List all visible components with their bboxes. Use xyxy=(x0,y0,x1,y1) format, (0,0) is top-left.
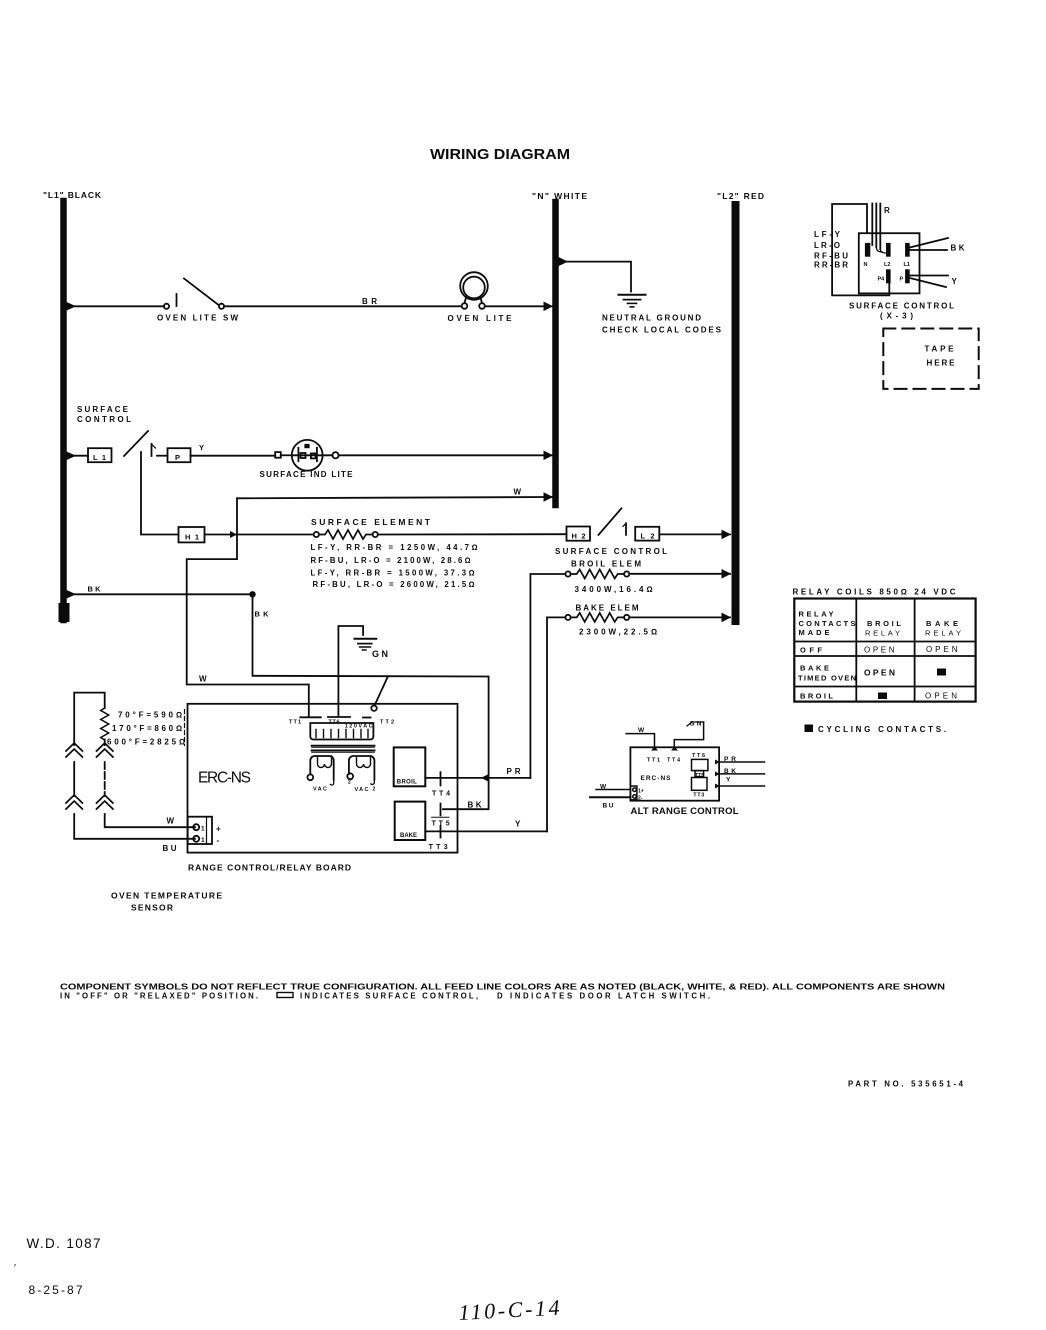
terminal TT3 tick xyxy=(440,826,442,838)
svg-text:Y: Y xyxy=(515,819,521,828)
pin 2 X-3 xyxy=(886,243,891,257)
junction dot BK xyxy=(249,591,255,597)
wire N bus to neutral ground xyxy=(558,262,631,292)
svg-text:Y: Y xyxy=(952,277,958,286)
svg-text:P4: P4 xyxy=(878,277,886,283)
box TAPE HERE xyxy=(883,329,978,389)
connector terminal block on board xyxy=(188,817,212,844)
transformer core xyxy=(312,746,375,751)
svg-text:WIRING DIAGRAM: WIRING DIAGRAM xyxy=(430,146,570,163)
svg-text:110-C-14: 110-C-14 xyxy=(458,1295,560,1325)
svg-text:P: P xyxy=(175,453,180,462)
wire P to ind lite xyxy=(191,455,276,457)
svg-text:N: N xyxy=(864,262,868,268)
terminal TT5 tick xyxy=(440,804,442,816)
svg-text:TT4: TT4 xyxy=(432,790,450,797)
svg-text:2300W,22.5Ω: 2300W,22.5Ω xyxy=(579,628,657,637)
resistor sensor xyxy=(101,708,109,740)
svg-text:TT1: TT1 xyxy=(289,720,301,726)
svg-text:RR-BR: RR-BR xyxy=(814,261,848,270)
transformer secondary right xyxy=(349,756,375,780)
svg-text:R: R xyxy=(884,206,890,215)
svg-text:BROIL: BROIL xyxy=(397,780,417,786)
svg-text:"L1" BLACK: "L1" BLACK xyxy=(43,190,102,200)
svg-text:2-: 2- xyxy=(638,795,643,801)
terminal TT6 bar xyxy=(328,716,350,718)
relay BROIL xyxy=(394,747,426,786)
svg-text:RF-BU: RF-BU xyxy=(814,252,848,261)
svg-text:BROIL: BROIL xyxy=(867,619,901,628)
wire loop left of X-3 xyxy=(832,204,889,295)
pin 5 X-3 xyxy=(905,269,910,283)
svg-text:RANGE CONTROL/RELAY BOARD: RANGE CONTROL/RELAY BOARD xyxy=(188,863,351,873)
svg-text:70°F=590Ω: 70°F=590Ω xyxy=(118,711,182,720)
switch blade H2 xyxy=(599,508,622,534)
node L2 bus xyxy=(732,205,740,621)
svg-text:RF-BU, LR-O = 2600W, 21.5Ω: RF-BU, LR-O = 2600W, 21.5Ω xyxy=(313,580,475,589)
switch blade surface control xyxy=(124,431,148,456)
box L1 (surface control contact) xyxy=(88,448,112,462)
svg-text:TT3: TT3 xyxy=(693,792,704,798)
wire switch to oven lite xyxy=(224,305,461,307)
box H2 xyxy=(567,527,591,541)
svg-text:RELAY: RELAY xyxy=(799,610,834,619)
svg-text:BK: BK xyxy=(88,584,102,593)
wire diagonal to TT2 xyxy=(375,676,389,705)
svg-text:BAKE: BAKE xyxy=(400,833,417,839)
svg-text:W: W xyxy=(199,675,207,684)
wire broil elem to L2 bus xyxy=(629,573,730,575)
svg-text:W: W xyxy=(514,488,522,497)
sensor loop oven temperature sensor xyxy=(74,693,105,745)
wire BK from L1 bus xyxy=(65,593,250,595)
svg-text:+: + xyxy=(216,824,221,833)
svg-text:CONTROL: CONTROL xyxy=(77,415,131,424)
svg-text:BAKE ELEM: BAKE ELEM xyxy=(576,604,639,613)
svg-text:HERE: HERE xyxy=(927,359,956,368)
svg-text:-: - xyxy=(217,836,220,845)
svg-text:VAC: VAC xyxy=(355,787,369,793)
box L2 (surface control contact) xyxy=(635,527,659,541)
terminal TT4 tick xyxy=(440,772,442,785)
svg-text:RELAY: RELAY xyxy=(865,629,900,638)
svg-text:3400W,16.4Ω: 3400W,16.4Ω xyxy=(575,585,653,594)
svg-text:TT6: TT6 xyxy=(692,753,705,759)
svg-text:IN "OFF" OR "RELAXED" POSI: IN "OFF" OR "RELAXED" POSITION. xyxy=(60,992,258,1001)
svg-text:TT4: TT4 xyxy=(667,757,681,763)
svg-text:2: 2 xyxy=(373,787,376,793)
svg-text:P: P xyxy=(900,277,904,283)
svg-text:SURFACE CONTROL: SURFACE CONTROL xyxy=(555,547,667,556)
svg-text:SURFACE ELEMENT: SURFACE ELEMENT xyxy=(311,517,431,527)
wire BU into terminal xyxy=(590,796,630,798)
transformer secondary left xyxy=(310,756,333,780)
svg-text:W: W xyxy=(638,727,645,734)
node L1 bus xyxy=(60,201,67,620)
svg-text:BROIL: BROIL xyxy=(800,692,833,701)
svg-text:1: 1 xyxy=(201,826,205,833)
svg-text:OVEN TEMPERATURE: OVEN TEMPERATURE xyxy=(111,891,222,901)
wire L1 to oven lite switch xyxy=(65,305,164,307)
ground neutral ground symbol xyxy=(619,294,646,296)
svg-text:Y: Y xyxy=(199,443,204,452)
resistor broil element xyxy=(565,571,570,576)
box H1 xyxy=(179,527,205,542)
wire PR riser to broil elem xyxy=(530,574,565,778)
transformer primary 120VAC xyxy=(310,723,373,740)
svg-text:ERC-NS: ERC-NS xyxy=(198,770,252,787)
svg-text:RELAY: RELAY xyxy=(925,629,961,638)
wire GN into alt control xyxy=(674,722,703,747)
break chevrons sensor wires xyxy=(66,743,82,757)
resistor bake element xyxy=(565,615,570,620)
svg-text:TT6: TT6 xyxy=(329,719,340,725)
svg-text:TIMED OVEN: TIMED OVEN xyxy=(798,674,856,683)
svg-text:L1: L1 xyxy=(904,262,910,268)
svg-text:ALT RANGE CONTROL: ALT RANGE CONTROL xyxy=(631,806,739,817)
wire surface element to H2 xyxy=(378,533,567,535)
svg-text:SURFACE IND LITE: SURFACE IND LITE xyxy=(260,470,354,479)
pin 3 X-3 xyxy=(905,243,910,257)
lamp OVEN LITE xyxy=(460,272,488,300)
svg-text:BU: BU xyxy=(603,803,614,810)
wire R leads xyxy=(872,204,880,250)
box P xyxy=(168,448,191,462)
svg-text:1: 1 xyxy=(201,837,205,844)
connector surface control X-3 xyxy=(859,233,920,293)
switch OVEN LITE SW xyxy=(164,304,169,309)
svg-text:W: W xyxy=(167,817,175,826)
lamp SURFACE IND LITE xyxy=(275,452,281,458)
label cycling contacts xyxy=(805,725,814,733)
wire W into alt control xyxy=(626,734,654,748)
svg-text:Y: Y xyxy=(726,777,731,784)
box ALT RANGE CONTROL xyxy=(630,747,719,800)
wire switch common down to H1 xyxy=(141,452,179,535)
relay BAKE xyxy=(395,802,426,840)
resistor surface element xyxy=(314,532,319,537)
svg-text:TT2: TT2 xyxy=(380,720,394,726)
wire L2 box to L2 bus xyxy=(659,533,730,535)
svg-text:120VAC: 120VAC xyxy=(345,724,373,730)
svg-text:"N" WHITE: "N" WHITE xyxy=(532,191,587,201)
wire W to N bus xyxy=(237,497,552,498)
wire BROIL to PR xyxy=(425,777,530,779)
ground GN xyxy=(338,626,363,716)
terminal TT2 circle xyxy=(371,706,376,711)
wire BK from pin 3 xyxy=(910,238,948,250)
wire Y riser to bake elem xyxy=(547,617,565,831)
wire ind lite to N bus xyxy=(339,454,552,456)
svg-text:600°F=2825Ω: 600°F=2825Ω xyxy=(107,738,185,747)
svg-text:CHECK LOCAL CODES: CHECK LOCAL CODES xyxy=(602,326,722,335)
terminal TT1 bar xyxy=(300,716,321,718)
wire W into terminal xyxy=(596,789,630,791)
svg-text:W: W xyxy=(600,784,607,791)
wire Y from pin 5 xyxy=(910,276,948,288)
board ERC-NS range control relay board xyxy=(188,704,458,853)
table relay contacts xyxy=(794,599,975,702)
svg-text:2: 2 xyxy=(348,780,351,786)
svg-text:RF-BU, LR-O = 2100W, 28.6Ω: RF-BU, LR-O = 2100W, 28.6Ω xyxy=(311,556,471,565)
svg-text:"L2" RED: "L2" RED xyxy=(717,191,764,201)
wire oven lite to N bus xyxy=(485,305,552,307)
svg-text:OFF: OFF xyxy=(800,646,822,655)
svg-text:VAC: VAC xyxy=(313,786,327,792)
svg-text:1+: 1+ xyxy=(638,788,644,794)
wire BAKE to Y xyxy=(425,830,547,832)
svg-text:PART NO. 535651-4: PART NO. 535651-4 xyxy=(848,1080,964,1089)
junction arrow PR xyxy=(481,774,489,782)
wire L1 bus to L1 box xyxy=(65,455,88,457)
svg-text:ERC-NS: ERC-NS xyxy=(641,775,672,782)
svg-text:TT1: TT1 xyxy=(647,757,660,763)
wire H1 to surface element xyxy=(205,534,314,536)
wire bake elem to L2 bus xyxy=(629,616,730,618)
wire BK down and right to TT2 and TT5 xyxy=(253,594,489,809)
svg-text:170°F=860Ω: 170°F=860Ω xyxy=(112,724,182,733)
pin 4 X-3 xyxy=(886,269,891,283)
svg-text:COMPONENT SYMBOLS DO NOT R: COMPONENT SYMBOLS DO NOT REFLECT TRUE CO… xyxy=(60,983,946,992)
svg-text:TT3: TT3 xyxy=(429,844,448,851)
terminal TT2 bar xyxy=(363,717,371,719)
junction W riser at H1 wire xyxy=(230,531,237,538)
terminal block alt control xyxy=(630,786,637,800)
wire to P box xyxy=(157,455,168,457)
node N bus xyxy=(552,202,559,505)
svg-text:SURFACE CONTROL: SURFACE CONTROL xyxy=(849,302,954,311)
svg-text:′: ′ xyxy=(14,1263,16,1274)
svg-text:W.D. 1087: W.D. 1087 xyxy=(27,1236,101,1251)
svg-text:SENSOR: SENSOR xyxy=(131,903,173,913)
pin 1 X-3 xyxy=(865,243,870,257)
pins right of alt control xyxy=(715,760,720,765)
svg-text:L2: L2 xyxy=(884,262,890,268)
